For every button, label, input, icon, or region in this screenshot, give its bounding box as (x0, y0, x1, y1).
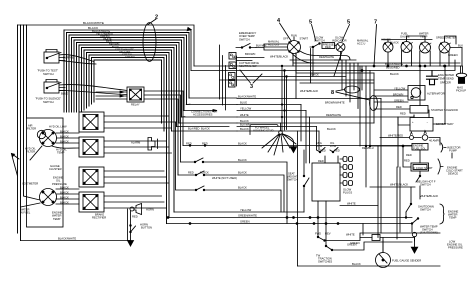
svg-text:GREEN: GREEN (448, 53, 458, 57)
svg-text:WHITE/RED: WHITE/RED (388, 133, 403, 137)
svg-text:WHITE/BLACK: WHITE/BLACK (390, 182, 408, 186)
inline connector pair A (229, 53, 236, 60)
svg-text:SWITCH: SWITCH (43, 72, 54, 76)
svg-text:RED: RED (188, 170, 194, 174)
svg-text:PUMP: PUMP (449, 149, 457, 153)
svg-text:GAUGE: GAUGE (400, 35, 410, 39)
svg-text:GREEN: GREEN (240, 219, 250, 223)
label injector pump with brace (447, 145, 460, 152)
keyswitch (288, 37, 301, 54)
svg-text:BLUE: BLUE (240, 100, 247, 104)
svg-text:START: START (300, 37, 309, 41)
inline connector pair D (229, 81, 236, 88)
svg-text:BLA/RED BLACK: BLA/RED BLACK (188, 127, 210, 131)
air filter symbol (37, 130, 45, 138)
wire verticals near connectors (220, 45, 226, 110)
svg-text:(SHUTDOWN): (SHUTDOWN) (420, 231, 438, 235)
wire bottom black (298, 265, 441, 267)
svg-text:RED/WHITE: RED/WHITE (326, 113, 341, 117)
wire bottom-left bus (21, 240, 131, 242)
label number 3 (250, 84, 253, 90)
wire diag glow to mesh (334, 52, 342, 77)
cutter drive neutral switch (236, 56, 238, 86)
label glow indicator (319, 36, 347, 59)
svg-text:BLACK: BLACK (310, 73, 319, 77)
svg-text:BLACK: BLACK (60, 134, 69, 138)
label horn (132, 207, 154, 218)
wire horn button branch (128, 209, 136, 246)
corner arrowhead (187, 28, 191, 31)
svg-text:BLACK: BLACK (60, 129, 69, 133)
flywheel housing stud ground (250, 125, 278, 135)
wires hyd-oil circle to boxes (52, 133, 79, 148)
label wire colours staircase (92, 29, 135, 59)
glow controller box (312, 163, 340, 201)
ground arrow horn (128, 241, 134, 247)
svg-text:40 AMPS: 40 AMPS (429, 138, 440, 142)
svg-text:BLACK/WHITE: BLACK/WHITE (83, 21, 104, 25)
wire water temp feeds (360, 238, 415, 242)
wire left vertical bundle (18, 25, 27, 241)
svg-text:TEMP: TEMP (449, 216, 457, 220)
wire traction leads (325, 233, 441, 250)
svg-text:YELLOW: YELLOW (240, 106, 252, 110)
svg-text:WHITE: WHITE (347, 201, 356, 205)
seat weight switch (287, 171, 298, 181)
connector circle hyd-oil (40, 130, 57, 147)
water temp switch shutdown (412, 219, 418, 233)
svg-text:FUEL GAUGE SENDER: FUEL GAUGE SENDER (392, 258, 421, 262)
label push-to-test (37, 56, 74, 77)
wire long bus y66 (194, 65, 462, 67)
svg-text:BLUE: BLUE (61, 92, 68, 96)
svg-text:RED/BLU: RED/BLU (362, 146, 374, 150)
svg-text:INDICATOR: INDICATOR (332, 39, 347, 43)
cold start device box (411, 163, 429, 171)
svg-text:SWITCHES: SWITCHES (318, 260, 332, 264)
svg-text:RECTIFIER: RECTIFIER (92, 216, 106, 220)
svg-text:WHITE: WHITE (240, 113, 249, 117)
svg-text:HORN: HORN (146, 207, 154, 211)
svg-text:BLK/WH: BLK/WH (240, 123, 250, 127)
svg-text:FILTER: FILTER (26, 150, 35, 154)
wire verticals mid-bottom (297, 131, 299, 266)
svg-text:WHITE/BLACK: WHITE/BLACK (270, 55, 288, 59)
row 1 red (183, 144, 412, 146)
glow plugs (343, 157, 353, 186)
svg-text:BLK: BLK (458, 43, 463, 47)
svg-text:TEMP SEND: TEMP SEND (438, 76, 454, 80)
gauge speedometer (439, 39, 451, 54)
label pointer lines (21, 146, 43, 207)
svg-text:IN FUEL: IN FUEL (20, 211, 31, 215)
svg-text:BLACK: BLACK (240, 119, 249, 123)
row 2 switch (181, 158, 288, 224)
svg-text:RED: RED (202, 141, 208, 145)
wire alternator leads (374, 90, 408, 102)
wire fuel sol feed (370, 145, 412, 147)
connector box column 1 (79, 112, 104, 132)
wire bus y70.5 (191, 60, 455, 71)
glow indicator (336, 43, 345, 52)
svg-text:RED: RED (132, 214, 138, 218)
svg-text:BLACK: BLACK (60, 190, 69, 194)
svg-text:TEMP: TEMP (53, 217, 61, 221)
row 4 switch (176, 122, 282, 212)
svg-text:ACCESSORIES: ACCESSORIES (193, 113, 213, 117)
wire battery leads (398, 66, 445, 125)
label voltmeter cluster (20, 176, 67, 221)
svg-text:GREEN/WHITE: GREEN/WHITE (238, 213, 257, 217)
inline connector small right (372, 235, 380, 241)
callout arrow left (12, 154, 20, 177)
svg-text:BLACK: BLACK (60, 185, 69, 189)
alarm device (148, 138, 158, 151)
svg-text:RED: RED (400, 111, 406, 115)
gauge water temp (420, 39, 432, 54)
wire cold start feed (403, 146, 420, 167)
svg-text:2: 2 (155, 15, 158, 21)
svg-text:ACC U: ACC U (357, 42, 365, 46)
wire red into box (325, 156, 338, 163)
svg-text:SWITCH: SWITCH (43, 100, 54, 104)
svg-text:LOW: LOW (330, 144, 337, 148)
wire right-bottom verticals (378, 99, 420, 240)
svg-text:BLACK: BLACK (390, 40, 399, 44)
label connections for accessories (188, 110, 217, 131)
svg-text:HYD OIL LOW: HYD OIL LOW (49, 125, 67, 129)
svg-text:RED: RED (404, 158, 410, 162)
svg-text:GREEN: GREEN (125, 55, 135, 59)
svg-text:BLACK/WHITE: BLACK/WHITE (238, 94, 256, 98)
svg-text:BLACK: BLACK (240, 127, 249, 131)
wire staircase verticals descending (64, 30, 94, 112)
svg-text:RED: RED (318, 159, 324, 163)
ground arrow right (414, 237, 416, 247)
svg-text:SWITCH: SWITCH (287, 178, 298, 182)
svg-text:SWITCH: SWITCH (420, 208, 431, 212)
label alarm (131, 141, 141, 145)
wire push-to-silence wires right (59, 85, 127, 95)
label number 4 (277, 18, 281, 24)
label 2 with leader (148, 19, 156, 25)
svg-text:BLACK: BLACK (60, 139, 69, 143)
svg-text:BLACK: BLACK (60, 195, 69, 199)
svg-text:ACC U/S: ACC U/S (268, 43, 279, 47)
labelled buses middle (237, 98, 381, 100)
wire relay feeds (96, 91, 183, 175)
svg-text:BLACK: BLACK (238, 185, 247, 189)
svg-text:BLACK: BLACK (327, 127, 336, 131)
svg-text:RED: RED (320, 148, 326, 152)
wire gauge top link (382, 36, 462, 48)
shutdown switch (406, 187, 411, 212)
connector box column 2 (79, 137, 104, 157)
svg-text:DEVICE: DEVICE (448, 172, 458, 176)
svg-text:+: + (412, 121, 414, 124)
inline connector pair B (229, 62, 236, 69)
switch push-to-silence (44, 80, 65, 94)
svg-text:GREEN: GREEN (350, 241, 360, 245)
svg-text:RED: RED (186, 141, 192, 145)
wire sender links (382, 238, 384, 253)
label number 5 glow indicator (347, 20, 350, 26)
svg-text:8: 8 (331, 90, 334, 96)
starter solenoid (410, 106, 428, 114)
svg-text:BLUE/RED: BLUE/RED (386, 65, 400, 69)
wires voltmeter circle to boxes (56, 189, 79, 204)
relay U1 (127, 87, 144, 102)
wire top bus BLACK/WHITE (18, 25, 195, 66)
svg-text:PRESSURE: PRESSURE (448, 246, 463, 250)
svg-text:RED: RED (396, 105, 402, 109)
fuel solenoid box (412, 144, 428, 151)
svg-text:RELAY: RELAY (131, 103, 140, 107)
wire mesh top right (220, 53, 461, 83)
svg-text:SWITCH: SWITCH (239, 37, 250, 41)
svg-text:4: 4 (277, 18, 281, 24)
wire shutdown connections (405, 212, 407, 218)
gauge cluster outline (27, 118, 64, 227)
svg-text:−: − (427, 121, 429, 124)
svg-text:3: 3 (250, 84, 253, 90)
svg-text:OFF: OFF (283, 37, 289, 41)
low engine oil pressure (447, 239, 463, 249)
svg-text:BLACK: BLACK (60, 200, 69, 204)
label top bus (83, 21, 104, 30)
svg-text:RED: RED (406, 153, 412, 157)
svg-text:FILTER: FILTER (27, 127, 36, 131)
svg-text:PURPLE: PURPLE (63, 56, 74, 60)
svg-text:BLACK/WHITE: BLACK/WHITE (58, 236, 76, 240)
fuel gauge sender (376, 241, 391, 268)
svg-text:BLACK: BLACK (200, 170, 209, 174)
wire glow links (318, 46, 356, 61)
traction switches (315, 231, 332, 263)
wire top bus BLACK (64, 30, 191, 71)
svg-text:RUN: RUN (291, 34, 297, 38)
row 3 switch (178, 171, 284, 212)
wire bus turndowns to glow area (301, 105, 319, 164)
svg-text:PLUGS: PLUGS (343, 191, 352, 195)
wire push-to-test to bundle (59, 55, 96, 64)
battery (410, 115, 433, 131)
svg-text:LOW: LOW (316, 144, 323, 148)
connector box column 4 (79, 192, 104, 212)
circuit breakers 40 amps (380, 138, 440, 146)
label horn button (140, 222, 152, 229)
svg-text:BLACK: BLACK (390, 72, 399, 76)
svg-text:BLACK: BLACK (238, 141, 247, 145)
svg-text:BROWN/WHITE: BROWN/WHITE (325, 100, 345, 104)
label air filter cluster (25, 124, 67, 172)
sender long water temp (427, 71, 438, 85)
svg-text:RED: RED (334, 148, 340, 152)
gauge hours (383, 42, 393, 52)
svg-text:BLACK: BLACK (238, 170, 247, 174)
inline connector pair C (229, 73, 236, 80)
svg-text:PICKUP: PICKUP (456, 89, 466, 93)
wire keyswitch leads (236, 44, 318, 99)
thermal sensor symbol (412, 232, 416, 236)
svg-text:BUTTON: BUTTON (141, 226, 152, 230)
svg-text:ALTERNATOR: ALTERNATOR (427, 91, 445, 95)
svg-text:WHITE (NOT USED): WHITE (NOT USED) (212, 176, 237, 180)
switch push-to-test (44, 50, 65, 64)
svg-text:WHITE/BLACK: WHITE/BLACK (300, 89, 318, 93)
svg-text:SWITCH: SWITCH (420, 183, 431, 187)
label number 7 (374, 20, 377, 26)
svg-text:F COLD START: F COLD START (414, 166, 434, 170)
label relay (131, 103, 140, 107)
svg-text:“PUSH TO SILENCE”: “PUSH TO SILENCE” (35, 97, 61, 101)
wire boxes right side links (104, 116, 176, 208)
svg-text:BROWN: BROWN (245, 52, 255, 56)
svg-text:HOUSING STUD: HOUSING STUD (253, 129, 274, 133)
svg-text:ALARM: ALARM (131, 141, 141, 145)
label push-to-silence (35, 92, 68, 105)
switch emergency over temp (239, 31, 257, 41)
svg-text:STARTER SOLENOID: STARTER SOLENOID (431, 108, 458, 112)
svg-text:TEMP: TEMP (57, 151, 65, 155)
svg-text:BLACK: BLACK (238, 158, 247, 162)
horn (130, 204, 142, 215)
svg-text:PRESSURE: PRESSURE (52, 182, 67, 186)
box pressed red (322, 43, 335, 49)
svg-text:“PUSH TO TEST”: “PUSH TO TEST” (37, 69, 58, 73)
below hot f switch (390, 179, 436, 186)
wire staircase bundle corners (67, 33, 190, 224)
switch glow (314, 36, 325, 43)
svg-text:RED: RED (325, 45, 331, 49)
label brake rectifier (92, 213, 106, 220)
svg-text:VOLTMETER: VOLTMETER (22, 182, 38, 186)
svg-text:WHITE: WHITE (346, 232, 355, 236)
connector circle voltmeter (40, 189, 57, 206)
svg-text:CLUSTER: CLUSTER (49, 167, 62, 171)
svg-text:SPACER: SPACER (440, 81, 451, 85)
svg-text:WHITE/BLACK: WHITE/BLACK (420, 194, 438, 198)
wire white from glow box (340, 205, 378, 207)
ellipse wire-group marker 2 (143, 23, 156, 62)
connector box column 3 (79, 167, 104, 187)
wire bottom buses (167, 212, 413, 224)
svg-text:BLACK: BLACK (352, 262, 361, 266)
label keyswitch positions (268, 34, 308, 59)
svg-text:YELLOW: YELLOW (240, 208, 252, 212)
ground arrow flywheel (282, 134, 294, 147)
wire gauge bottoms to bus (388, 48, 462, 67)
label 8 with ellipses (345, 86, 360, 93)
brace engine water temp (440, 204, 445, 224)
gauge fuel (401, 39, 413, 53)
wire accessory stubs (172, 98, 238, 131)
warning switches above box (317, 148, 339, 153)
svg-text:TEMP: TEMP (420, 35, 428, 39)
mag pickup (456, 66, 466, 83)
alternator (408, 86, 425, 101)
label number 5 glow switch (309, 20, 312, 26)
